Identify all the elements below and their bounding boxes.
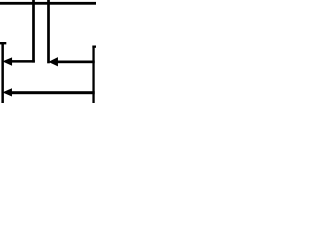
wire arrow 1 horizontal segment	[11, 60, 35, 63]
wire vertical lifeline A	[32, 0, 35, 63]
arrowhead R pointing left	[49, 58, 57, 66]
wire arrow 2 bottom horizontal segment	[11, 91, 95, 94]
wire arrow R horizontal segment	[56, 61, 95, 64]
arrowhead 2 pointing left	[4, 89, 12, 96]
wire right vertical border	[92, 46, 94, 104]
wire top horizontal bus	[0, 2, 96, 5]
node right top corner tick	[92, 46, 96, 48]
wire left vertical border	[1, 42, 4, 103]
node left top corner tick	[0, 42, 6, 44]
arrowhead 1 pointing left	[4, 58, 12, 65]
wire vertical lifeline B	[47, 0, 50, 63]
